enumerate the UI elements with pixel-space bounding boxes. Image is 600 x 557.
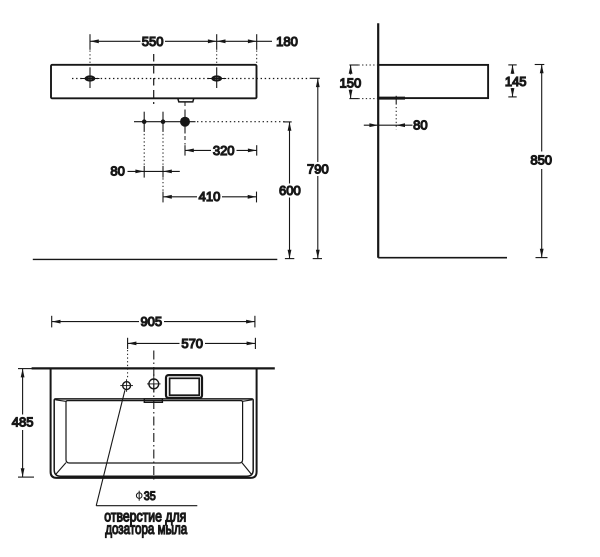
svg-text:790: 790 (307, 161, 329, 176)
svg-text:180: 180 (276, 34, 298, 49)
supply point dot 2 (161, 112, 166, 191)
wall connection points row (134, 121, 285, 123)
svg-text:80: 80 (413, 118, 427, 133)
svg-text:35: 35 (144, 489, 156, 503)
plan view: rim contour (54, 399, 253, 476)
front view: horizontal dash-dot centerline through tap holes (72, 78, 310, 80)
dimension 145 (505, 65, 527, 97)
dimension 790 (307, 78, 329, 258)
plan view: soap dispenser hole (120, 379, 133, 392)
dimension 905 (52, 314, 255, 329)
svg-text:дозатора мыла: дозатора мыла (105, 521, 187, 538)
dimension 180 (217, 34, 298, 63)
diameter symbol (136, 491, 142, 501)
svg-text:550: 550 (142, 34, 164, 49)
svg-text:410: 410 (199, 189, 221, 204)
plan view: corner diagonals (55, 400, 252, 475)
drain point big dot (180, 102, 190, 145)
front view: basin outline (51, 65, 257, 99)
dimension 410 (163, 189, 257, 204)
front view: drain boss tab (178, 98, 194, 102)
svg-text:905: 905 (140, 314, 162, 329)
dimension 80 (wall points) (110, 164, 179, 179)
svg-text:850: 850 (530, 153, 552, 168)
svg-text:485: 485 (12, 415, 34, 430)
dimension 600 (279, 122, 301, 259)
plan view: basin outer rect (51, 368, 257, 478)
plan view: vertical centerline dash-dot (153, 351, 155, 482)
plan view: overflow slot (144, 399, 162, 402)
dimension 150 (340, 65, 377, 99)
svg-text:145: 145 (505, 74, 527, 89)
dimension 80 (side) (364, 96, 428, 133)
plan view: faucet hole (147, 374, 161, 393)
side view: wall line (377, 23, 379, 258)
side view: basin profile (378, 65, 488, 98)
front view: vertical center dash line (153, 54, 155, 104)
svg-text:80: 80 (110, 164, 124, 179)
plan view: wall line (32, 367, 275, 369)
svg-text:320: 320 (213, 143, 235, 158)
front view: right tap hole (207, 67, 226, 88)
front view: left tap hole (81, 67, 100, 88)
side view: floor line right (378, 257, 507, 259)
supply point dot 1 (142, 112, 147, 166)
floor line left (33, 258, 277, 260)
svg-text:150: 150 (340, 75, 362, 90)
leader line to soap dispenser hole (96, 390, 197, 506)
plan view: overflow box outer (166, 375, 202, 398)
svg-text:570: 570 (181, 336, 203, 351)
svg-text:600: 600 (279, 183, 301, 198)
dimension 550 (90, 34, 217, 64)
dimension 320 (185, 143, 257, 158)
plan view: overflow box inner (170, 378, 200, 395)
dimension 570 (128, 336, 256, 379)
dimension 485 (12, 369, 34, 478)
dimension 850 (530, 65, 552, 258)
plan view: inner bowl bottom contour (66, 401, 243, 463)
